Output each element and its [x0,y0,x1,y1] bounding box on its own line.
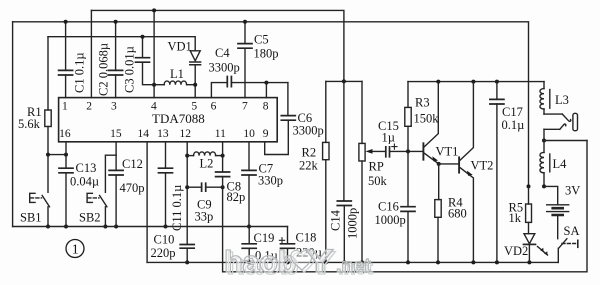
svg-text:2: 2 [86,101,92,113]
svg-text:C1 0.1µ: C1 0.1µ [73,52,87,93]
transistor VT1 [423,82,440,166]
svg-text:82p: 82p [227,190,246,204]
capacitor C15 (electrolytic 1u) [386,144,423,157]
svg-text:C18: C18 [296,231,317,245]
svg-text:9: 9 [263,128,269,140]
svg-text:haob: haob [224,244,296,279]
svg-text:C17: C17 [502,105,523,119]
capacitor C13 [59,142,73,229]
capacitor C8 [216,142,230,187]
wire audio return box (pin11 net to earphone sleeve) [223,141,587,272]
resistor R3 [405,82,411,152]
capacitor C18 (electrolytic) [279,227,294,265]
diode VD2 (LED) [524,234,548,265]
svg-text:1k: 1k [509,211,522,225]
svg-text:R3: R3 [415,96,430,110]
svg-text:SB1: SB1 [20,211,42,225]
svg-text:TDA7088: TDA7088 [152,111,205,126]
svg-text:470p: 470p [120,181,145,195]
inductor L3 [540,82,550,115]
svg-text:C10: C10 [154,233,175,247]
svg-text:L3: L3 [555,93,569,107]
svg-text:VD1: VD1 [168,40,192,54]
wire collector supply rail [408,80,544,84]
svg-text:15: 15 [110,128,122,140]
node marker circled 1 [66,240,84,258]
transistor VT2 [439,82,476,265]
wire top rail 2 (supply) [13,22,529,187]
capacitor C16 [401,151,415,264]
svg-text:R2: R2 [302,146,317,160]
svg-text:0.04µ: 0.04µ [70,175,99,189]
svg-text:150k: 150k [414,112,440,126]
svg-text:6: 6 [211,101,217,113]
wire pin 12 vertical [185,142,189,245]
svg-text:3300p: 3300p [293,124,324,138]
pin numbers bottom row [59,128,269,140]
svg-text:11: 11 [215,128,226,140]
svg-text:50k: 50k [368,174,388,188]
svg-text:0.1µ: 0.1µ [502,118,525,132]
capacitor C6 [265,83,296,155]
diode VD1 (varactor) [190,51,201,85]
svg-text:1000p: 1000p [346,208,360,239]
svg-text:8: 8 [263,101,269,113]
inductor L4 [527,141,550,189]
wire top rail 1 (pin2 to audio divider) [91,10,344,81]
svg-text:3: 3 [111,101,117,113]
svg-text:3300p: 3300p [209,61,240,75]
capacitor C19 [242,227,256,265]
wire bottom rail (battery minus) [147,261,558,263]
capacitor C11 [159,142,173,229]
svg-text:C5: C5 [254,33,269,47]
svg-text:Y: Y [305,244,334,279]
capacitor C5 [238,20,252,98]
svg-text:4: 4 [151,101,157,113]
switch SB1 [30,155,50,229]
svg-text:SB2: SB2 [79,211,101,225]
svg-text:14: 14 [138,128,150,140]
svg-text:330p: 330p [258,174,283,188]
svg-text:VT2: VT2 [471,159,494,173]
capacitor C9 [187,183,224,191]
svg-text:C4: C4 [215,46,230,60]
resistor R5 [526,186,532,233]
svg-text:L2: L2 [200,157,214,171]
op-amp U1 TDA7088 IC body [59,98,278,142]
svg-text:L1: L1 [170,67,184,81]
wire pin 5 vertical [193,83,197,98]
resistor R1 [45,37,51,155]
capacitor C3 [136,37,155,85]
capacitor C12 [109,155,123,228]
svg-text:.net: .net [336,255,371,277]
svg-text:13: 13 [157,128,169,140]
svg-text:C13: C13 [76,161,97,175]
svg-text:3V: 3V [565,184,580,198]
wire pin 4 vertical [152,8,156,97]
svg-text:22k: 22k [299,159,319,173]
svg-text:C19: C19 [254,231,275,245]
inductor L2 [187,152,224,158]
wire left border [12,22,14,227]
svg-text:C3 0.01µ: C3 0.01µ [123,46,137,93]
svg-text:16: 16 [59,128,71,140]
switch SB2 [87,142,116,229]
svg-text:L4: L4 [553,157,568,171]
wire pin 2 vertical [90,10,92,97]
svg-text:1: 1 [62,101,68,113]
wire R1 to pin16 bar [46,153,68,157]
resistor R2 [323,79,362,264]
svg-text:C16: C16 [378,200,399,214]
svg-text:C14: C14 [329,209,343,231]
svg-text:33p: 33p [195,210,214,224]
svg-text:1000p: 1000p [375,213,406,227]
svg-text:10: 10 [243,128,255,140]
svg-text:RP: RP [369,160,384,174]
capacitor C7 [242,142,256,229]
resistor R4 [435,164,441,265]
node rail3-C3 junction [141,35,145,39]
svg-text:5: 5 [191,101,197,113]
pin numbers top row [62,101,269,113]
capacitor C1 [59,20,73,98]
battery GB 3V [544,186,569,238]
capacitor C17 [490,82,504,265]
svg-text:C12: C12 [122,157,143,171]
svg-text:680: 680 [448,207,467,221]
wire pin 8 vertical [265,83,267,98]
svg-text:12: 12 [180,128,192,140]
svg-text:SA: SA [564,224,580,238]
svg-text:VD2: VD2 [504,244,528,258]
potentiometer RP [359,81,386,264]
svg-text:7: 7 [242,101,248,113]
svg-text:220p: 220p [151,246,176,260]
svg-text:1µ: 1µ [382,131,395,145]
capacitor C2 [109,20,123,98]
capacitor C4 [227,77,288,87]
earphone jack [542,113,587,142]
wire ground-side rail (bottom of SB/C13/C12/C11/C7) [13,226,288,228]
inductor L1 [154,81,195,85]
capacitor C10 [180,245,194,265]
wire rail 3 (R1 / C3 / VD1) [48,37,195,51]
svg-text:VT1: VT1 [436,145,459,159]
wire pin 14 vertical [146,142,148,263]
switch SA [558,239,578,263]
wire pin 6 to C4 row [211,83,227,98]
svg-text:C11 0.1µ: C11 0.1µ [170,185,184,231]
svg-text:C2 0.068µ: C2 0.068µ [97,43,111,96]
watermark haobY.net [224,244,373,282]
svg-text:180p: 180p [254,47,279,61]
svg-text:1: 1 [72,243,79,258]
svg-text:5.6k: 5.6k [18,117,41,131]
capacitor C14 [337,81,351,264]
